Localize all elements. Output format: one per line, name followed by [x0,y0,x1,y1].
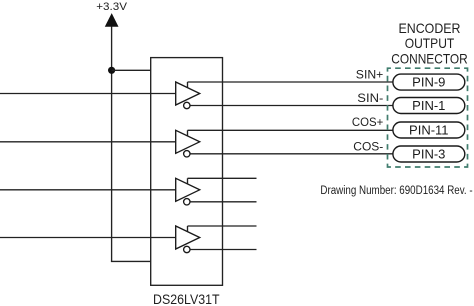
svg-text:+3.3V: +3.3V [96,1,127,13]
svg-text:SIN-: SIN- [357,91,383,105]
svg-text:SIN+: SIN+ [356,67,384,81]
svg-text:PIN-11: PIN-11 [409,122,449,137]
svg-text:CONNECTOR: CONNECTOR [391,50,468,66]
svg-text:DS26LV31T: DS26LV31T [153,291,220,306]
svg-text:COS+: COS+ [352,115,383,129]
svg-text:COS-: COS- [353,140,383,154]
svg-text:OUTPUT: OUTPUT [405,35,455,51]
svg-text:PIN-9: PIN-9 [412,74,445,89]
svg-text:ENCODER: ENCODER [399,20,461,36]
svg-text:PIN-3: PIN-3 [412,146,445,161]
svg-text:PIN-1: PIN-1 [412,98,445,113]
svg-text:Drawing Number: 690D1634 Rev.: Drawing Number: 690D1634 Rev. - [320,185,472,197]
